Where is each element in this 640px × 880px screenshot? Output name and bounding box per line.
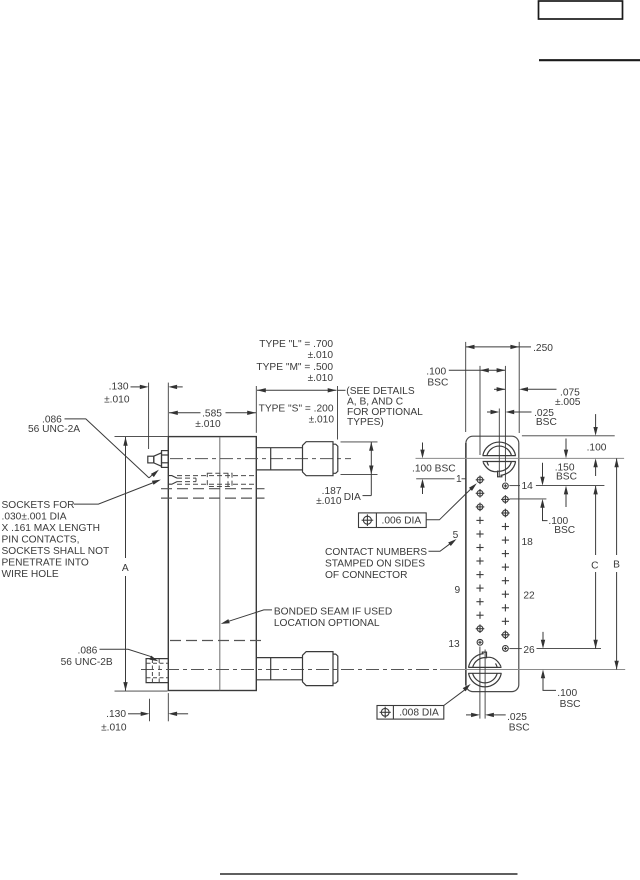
dimension A: extension lines: [115, 436, 168, 438]
title box (top right, empty): [539, 1, 623, 19]
svg-text:OF CONNECTOR: OF CONNECTOR: [325, 570, 407, 581]
top jackscrew knob: [303, 442, 334, 476]
svg-text:±.005: ±.005: [555, 397, 581, 408]
svg-text:.008 DIA: .008 DIA: [399, 707, 439, 718]
contact 22: [502, 591, 509, 598]
svg-text:±.010: ±.010: [308, 373, 334, 384]
dimension .100 top right: arrows text: [595, 414, 597, 427]
svg-text:56 UNC-2A: 56 UNC-2A: [28, 424, 80, 435]
contact 26 leader and label: [509, 648, 521, 650]
svg-text:.130: .130: [106, 709, 126, 720]
vertical extension: .250 left: [465, 342, 467, 432]
contact 4: [476, 517, 483, 524]
svg-text:BONDED SEAM IF USED: BONDED SEAM IF USED: [274, 607, 392, 618]
face outline (rounded rect): [466, 436, 519, 691]
svg-text:BSC: BSC: [509, 723, 530, 734]
svg-text:.100: .100: [557, 688, 577, 699]
contact 12: [476, 624, 485, 633]
extension line: bottom circle center (long): [440, 669, 625, 671]
svg-text:PIN CONTACTS,: PIN CONTACTS,: [2, 535, 80, 546]
svg-text:BSC: BSC: [427, 377, 448, 388]
contact 2: [476, 489, 485, 498]
svg-text:±.010: ±.010: [316, 496, 342, 507]
svg-text:TYPE "L" = .700: TYPE "L" = .700: [259, 339, 333, 350]
dimension .075: arrows text: [494, 388, 505, 390]
svg-text:56 UNC-2B: 56 UNC-2B: [61, 657, 113, 668]
contact 1: [476, 476, 485, 485]
connector body outline: [168, 437, 256, 691]
vertical extensions bottom .025: [479, 647, 481, 719]
footer rule line (bottom center): [220, 873, 518, 875]
extension line: contact 14 row: [536, 485, 605, 487]
top polarizing hole (use): [483, 442, 516, 477]
contact 25: [501, 631, 510, 640]
dimension .585: line and arrows: [169, 412, 201, 414]
screw .086 56 UNC-2A (top left stud): [148, 451, 169, 468]
vertical extension: .250/.075 right: [518, 342, 520, 433]
contact 3: [476, 503, 485, 512]
dimension C: line arrows label: [595, 486, 597, 555]
svg-text:LOCATION OPTIONAL: LOCATION OPTIONAL: [274, 618, 380, 629]
svg-text:±.010: ±.010: [101, 722, 127, 733]
centerline bottom jackscrew (dash-dot): [141, 669, 440, 671]
svg-text:DIA: DIA: [344, 492, 361, 503]
svg-text:±.010: ±.010: [104, 395, 130, 406]
contact 5: [476, 530, 483, 537]
dimension .250: line arrows text: [466, 346, 520, 348]
vertical extension: .025 top: [498, 409, 500, 478]
contact 14: [503, 483, 509, 489]
dimension .187 DIA: line and arrows: [370, 442, 372, 496]
svg-text:BSC: BSC: [554, 525, 575, 536]
contact 18: [502, 537, 509, 544]
pin contact hidden box (dashed): [207, 473, 232, 486]
dimension TYPE length: line and arrows: [257, 389, 337, 391]
face left edge emphasized: [465, 443, 467, 685]
svg-text:BSC: BSC: [560, 699, 581, 710]
vertical extension: right contact column: [504, 366, 506, 482]
svg-text:26: 26: [523, 645, 535, 656]
contact 15: [501, 495, 510, 504]
feature control frame .006 DIA: [359, 513, 427, 528]
svg-text:B: B: [613, 559, 620, 570]
contact 24: [502, 618, 509, 625]
dimension .150 BSC: arrows text: [565, 439, 567, 450]
svg-text:22: 22: [523, 591, 535, 602]
dimension B: line arrows label: [616, 458, 618, 555]
dimension .130 bottom: arrows: [128, 713, 141, 715]
screw hole .086 56 UNC-2B (bottom left, hidden): [146, 659, 168, 683]
contact 16: [501, 509, 510, 518]
dimension .100 BSC bottom: arrows leader text: [542, 632, 544, 640]
svg-text:9: 9: [455, 585, 461, 596]
bottom jackscrew shaft: [256, 658, 302, 680]
svg-text:.585: .585: [202, 408, 222, 419]
dimension .100 left: arrows: [422, 443, 424, 450]
contact 6: [476, 544, 483, 551]
svg-text:±.010: ±.010: [195, 419, 221, 430]
svg-text:14: 14: [522, 481, 534, 492]
svg-text:.030±.001 DIA: .030±.001 DIA: [2, 512, 67, 523]
dimension .130 top: arrows and leader: [131, 386, 141, 388]
svg-text:SOCKETS FOR: SOCKETS FOR: [2, 500, 75, 511]
svg-text:.250: .250: [533, 343, 553, 354]
svg-text:.100: .100: [426, 367, 446, 378]
bonded seam line (vertical, optional location): [219, 437, 221, 690]
dimension .025 BSC top: arrows text: [487, 411, 491, 413]
svg-text:13: 13: [448, 639, 460, 650]
svg-text:±.010: ±.010: [309, 415, 335, 426]
feature control frame .008 DIA: [377, 706, 444, 720]
svg-text:SOCKETS SHALL NOT: SOCKETS SHALL NOT: [2, 546, 110, 557]
svg-text:.130: .130: [109, 382, 129, 393]
leader SOCKETS: [74, 482, 154, 504]
svg-text:1: 1: [456, 474, 462, 485]
contact 8: [476, 571, 483, 578]
wire hole hidden lines (long dash): [161, 488, 265, 490]
svg-text:TYPE "M" = .500: TYPE "M" = .500: [256, 362, 333, 373]
dimension .130 bottom: extension lines: [149, 699, 151, 722]
svg-text:.086: .086: [78, 646, 98, 657]
svg-text:CONTACT NUMBERS: CONTACT NUMBERS: [325, 547, 427, 558]
centerline top jackscrew (dash-dot): [170, 458, 351, 460]
svg-text:TYPE "S" = .200: TYPE "S" = .200: [259, 404, 334, 415]
dimension TYPE length: extension lines: [255, 386, 257, 433]
svg-text:±.010: ±.010: [308, 350, 334, 361]
contact 21: [502, 577, 509, 584]
bottom polarizing hole (use, rotated 180): [468, 652, 501, 687]
bottom hidden line (long dash): [170, 640, 264, 642]
leader CONTACT NUMBERS: [429, 543, 452, 552]
dimension .025 BSC bottom: arrows text: [466, 714, 471, 716]
leader .086 2B: [100, 649, 152, 657]
dimension .187 DIA: extension lines: [341, 441, 378, 443]
contact 13: [477, 639, 483, 645]
bottom jackscrew knob: [303, 652, 334, 686]
contact 10: [476, 598, 483, 605]
svg-text:TYPES): TYPES): [347, 417, 384, 428]
svg-text:C: C: [591, 560, 598, 571]
extension line: face top to right: [522, 435, 615, 437]
svg-text:A: A: [122, 563, 129, 574]
extension line: contact 15 row: [510, 498, 547, 500]
contact 20: [502, 564, 509, 571]
svg-text:STAMPED ON SIDES: STAMPED ON SIDES: [325, 559, 425, 570]
contact 19: [502, 550, 509, 557]
contact 26: [503, 646, 509, 652]
svg-text:.100: .100: [587, 442, 607, 453]
dimension .100 BSC pitch right: arrows leader text: [542, 463, 544, 477]
svg-text:.025: .025: [507, 712, 527, 723]
contact 9: [476, 585, 483, 592]
contact 17: [502, 523, 509, 530]
vertical extension: left contact column: [479, 366, 481, 455]
svg-text:PENETRATE INTO: PENETRATE INTO: [2, 558, 89, 569]
socket cavity hidden lines (dashed): [177, 476, 255, 485]
top jackscrew shaft: [256, 448, 302, 470]
dimension .130 top: extension lines: [148, 383, 150, 449]
socket entry funnel (solid): [169, 476, 178, 485]
contact 23: [502, 604, 509, 611]
dimension A: line, arrows, label: [125, 437, 127, 558]
header rule line (top right): [539, 59, 640, 61]
svg-text:.006 DIA: .006 DIA: [382, 515, 422, 526]
leader .008: [444, 690, 465, 706]
leader .086 2A: [65, 419, 150, 478]
svg-text:BSC: BSC: [556, 471, 577, 482]
leader .006: [426, 489, 471, 520]
svg-text:BSC: BSC: [536, 417, 557, 428]
contact 11: [476, 612, 483, 619]
svg-text:X .161 MAX LENGTH: X .161 MAX LENGTH: [2, 523, 101, 534]
extension line: circle slot center (long, to B dim): [416, 457, 625, 459]
leader BONDED SEAM: [227, 610, 272, 622]
svg-text:WIRE HOLE: WIRE HOLE: [2, 569, 59, 580]
contact 14 leader and label: [509, 485, 520, 487]
svg-text:18: 18: [522, 537, 534, 548]
svg-text:.100 BSC: .100 BSC: [412, 463, 456, 474]
contact 7: [476, 557, 483, 564]
contact 1 leader row: [416, 478, 454, 480]
